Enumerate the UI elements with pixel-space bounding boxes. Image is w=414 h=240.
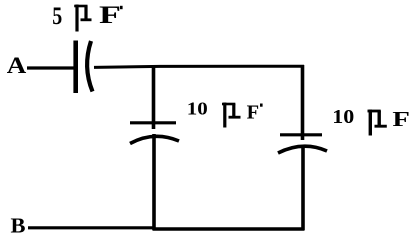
wire C3 down to bottom wire — [301, 145, 305, 230]
value label 5 uF — [52, 2, 122, 31]
scan speck after F — [120, 6, 123, 9]
svg-text:F: F — [392, 107, 410, 131]
capacitor C3 10uF top plate — [280, 133, 322, 136]
wire C2 down to bottom wire — [152, 134, 156, 230]
capacitor C2 10uF bottom curved plate — [130, 136, 179, 143]
bottom wire B rail right segment — [153, 227, 305, 230]
capacitor C3 10uF bottom curved plate — [278, 146, 327, 153]
value label 10 uF (middle) — [187, 99, 263, 128]
capacitor C1 5uF right curved plate — [87, 41, 92, 92]
capacitor C1 5uF left plate — [73, 41, 78, 94]
wire C1 to top-right corner — [94, 66, 304, 67]
svg-text:10: 10 — [187, 99, 208, 119]
scan speck after F — [260, 104, 263, 107]
svg-text:10: 10 — [332, 106, 354, 128]
wire top-right corner down to C3 — [301, 65, 305, 140]
wire top junction down to C2 — [152, 65, 156, 129]
mu glyph (hand-drawn typewriter style) — [74, 5, 91, 32]
svg-text:A: A — [7, 53, 27, 79]
svg-text:F: F — [247, 103, 260, 124]
svg-text:5: 5 — [52, 3, 62, 30]
capacitor C2 10uF top plate — [130, 121, 176, 124]
bottom wire B rail left segment — [28, 226, 156, 229]
svg-text:B: B — [11, 214, 26, 238]
mu glyph (hand-drawn typewriter style) — [368, 110, 387, 136]
wire A to C1 — [27, 66, 74, 69]
svg-text:F: F — [99, 2, 121, 29]
mu glyph (hand-drawn typewriter style) — [222, 103, 241, 128]
value label 10 uF (right) — [332, 106, 410, 136]
